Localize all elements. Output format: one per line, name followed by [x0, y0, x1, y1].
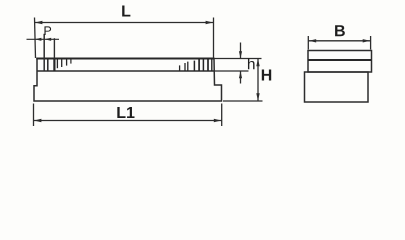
- label P: [44, 26, 51, 35]
- dimension L arrow left: [35, 21, 43, 24]
- front view divider line (strip bottom): [37, 70, 215, 72]
- dimension h upper arrowhead: [239, 51, 242, 58]
- dimension L1 line: [34, 120, 222, 122]
- dimension L1 extension left: [33, 104, 35, 127]
- dimension H line: [257, 59, 259, 102]
- dimension B extension left: [307, 36, 309, 50]
- side view lower box: [305, 72, 369, 102]
- front view top edge (thick): [36, 58, 214, 60]
- dimension L1 arrow right: [214, 119, 222, 122]
- left teeth cluster: [48, 59, 71, 72]
- dimension H bottom arrowhead: [256, 93, 259, 101]
- dimension h line upper with arrow: [240, 43, 242, 59]
- dimension B arrow right: [363, 39, 371, 42]
- dimension B extension right: [370, 36, 372, 50]
- dimension P arrow at left extension: [35, 38, 42, 41]
- dimension L line: [35, 22, 214, 24]
- dimension B arrow left: [309, 39, 317, 42]
- label h: [248, 58, 255, 69]
- tooth extended up to P dimension line: [53, 38, 55, 58]
- dimension L extension line right: [213, 18, 215, 59]
- side view mid line (thick): [308, 59, 372, 61]
- dimension L arrow right: [206, 21, 214, 24]
- right teeth cluster: [180, 59, 212, 72]
- label H: [262, 69, 271, 80]
- dimension B line: [308, 40, 370, 42]
- dimension h line lower with arrow: [240, 71, 242, 84]
- dimension H top arrowhead: [256, 59, 259, 67]
- dimension P extension right: [43, 34, 45, 71]
- dimension P line: [27, 38, 60, 40]
- label L: [122, 5, 130, 16]
- front view body outline: [34, 59, 222, 102]
- H extension line bottom (base bottom prolonged): [223, 100, 263, 102]
- dimension L extension line left: [35, 18, 36, 59]
- dimension L1 extension right: [221, 104, 223, 127]
- h extension line top (strip top prolonged): [214, 58, 262, 60]
- label B: [335, 25, 345, 36]
- side view upper box: [308, 51, 372, 73]
- h extension line bottom (strip bottom prolonged): [215, 70, 249, 72]
- dimension h lower arrowhead: [239, 71, 242, 78]
- dimension L1 arrow left: [34, 119, 42, 122]
- label L1: [117, 107, 134, 118]
- dimension P arrow at right extension: [45, 38, 52, 41]
